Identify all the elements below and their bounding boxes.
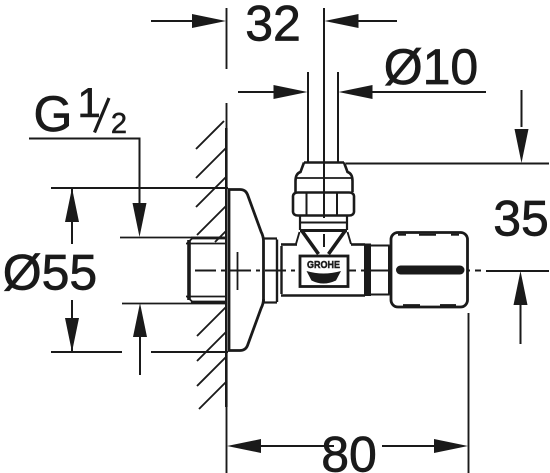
svg-text:GROHE: GROHE [307,259,340,271]
svg-text:Ø10: Ø10 [384,39,479,95]
svg-text:80: 80 [321,427,377,473]
svg-text:35: 35 [493,191,549,247]
svg-text:Ø55: Ø55 [3,245,98,301]
svg-text:2: 2 [111,108,127,140]
svg-text:32: 32 [245,0,301,52]
svg-text:G: G [34,86,73,142]
svg-text:1: 1 [77,79,100,126]
